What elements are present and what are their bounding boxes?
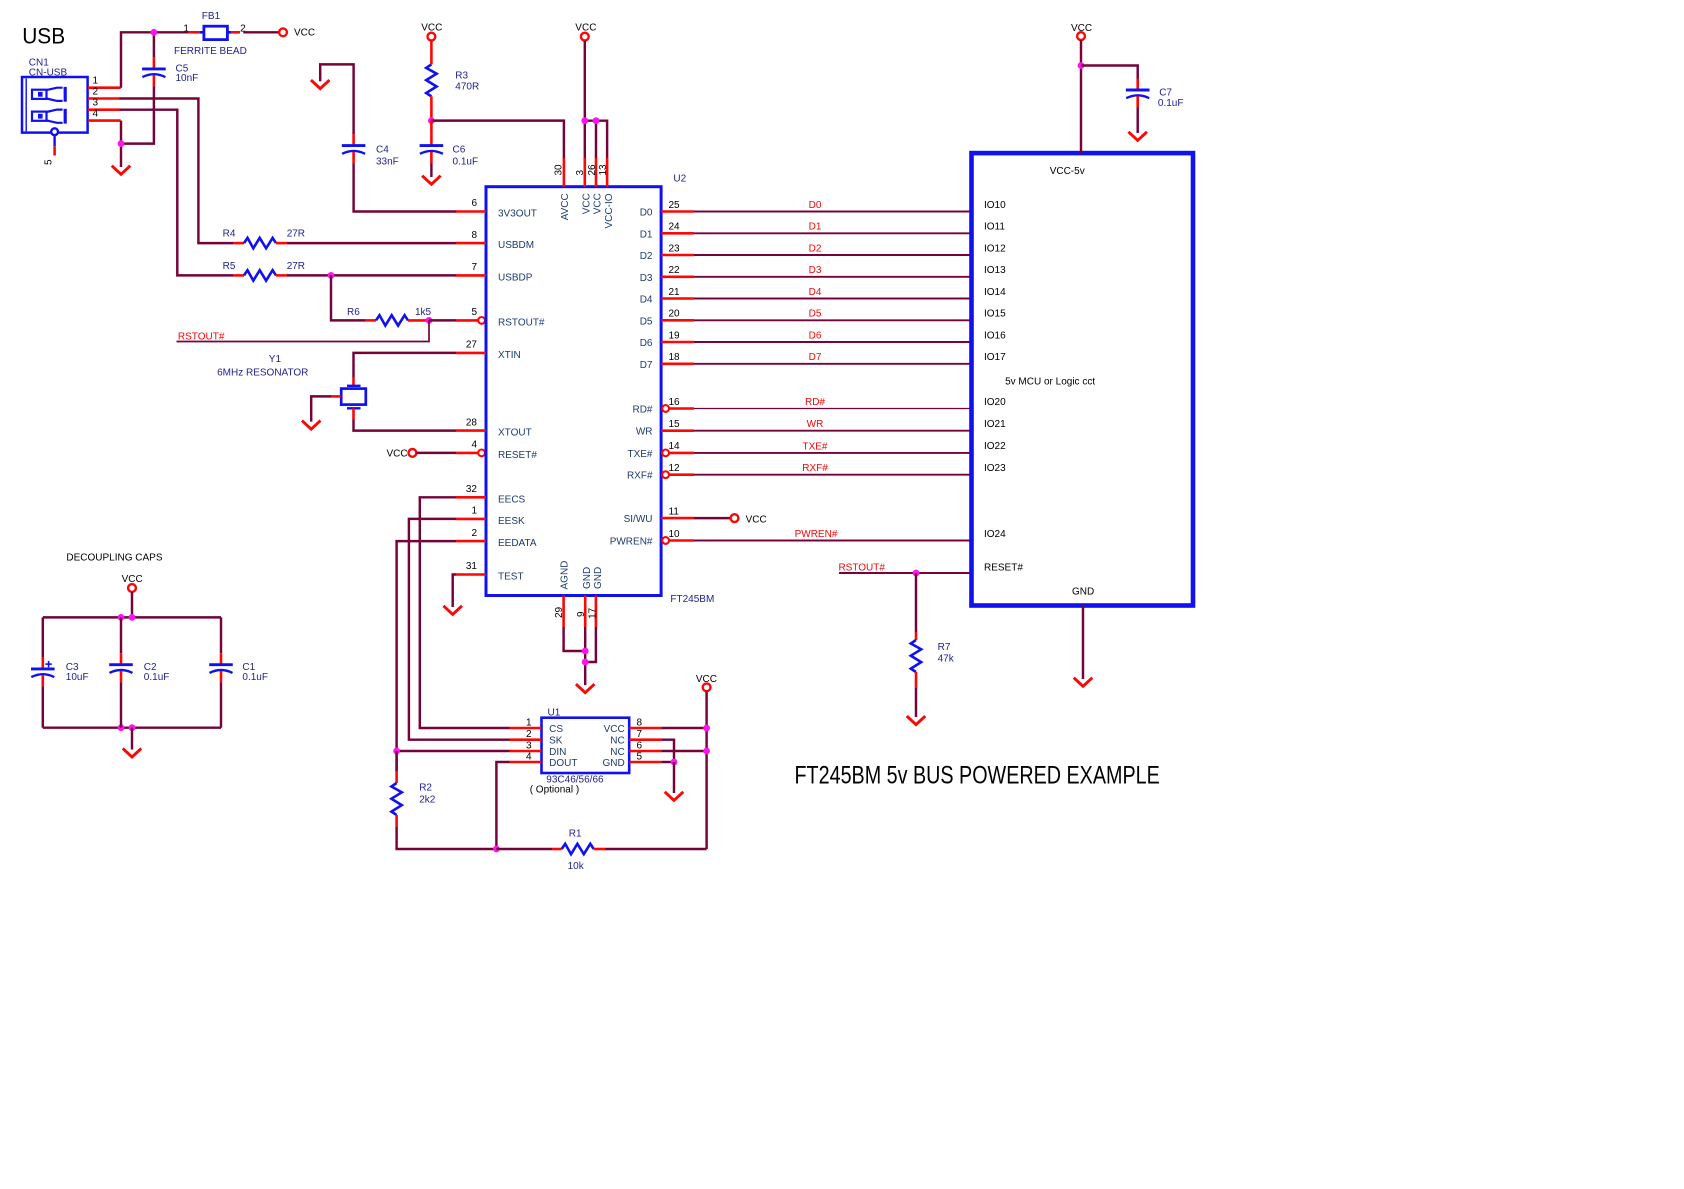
pin 26 stub of U2 top: [595, 158, 598, 187]
svg-text:0.1uF: 0.1uF: [242, 672, 268, 683]
VCC port above U2: [575, 22, 596, 40]
VCC port at U1: [696, 674, 717, 691]
svg-text:2: 2: [526, 729, 532, 740]
wire to C7: [1081, 66, 1138, 79]
svg-text:27: 27: [466, 340, 478, 351]
wire EESK to SK: [409, 519, 510, 740]
wire to R1: [496, 848, 552, 850]
pin 7 NC of U1: [629, 738, 661, 741]
svg-text:1: 1: [93, 76, 99, 87]
svg-text:17: 17: [587, 607, 598, 619]
svg-text:D5: D5: [640, 316, 653, 327]
svg-text:1: 1: [471, 506, 477, 517]
svg-text:CS: CS: [549, 724, 563, 735]
svg-text:6MHz RESONATOR: 6MHz RESONATOR: [217, 367, 308, 378]
pin 3 stub of U2 top: [583, 158, 586, 187]
svg-text:DIN: DIN: [549, 747, 566, 758]
wire VCC8 to VCC line: [661, 727, 706, 729]
inversion bubble PWREN#: [662, 537, 669, 544]
junction C2 bottom: [118, 724, 125, 731]
svg-text:D0: D0: [809, 200, 822, 211]
svg-text:VCC: VCC: [122, 574, 143, 585]
svg-text:DECOUPLING CAPS: DECOUPLING CAPS: [66, 553, 162, 564]
wire Y1 gnd pin: [311, 396, 331, 421]
wire VCC to RESET#: [416, 452, 456, 454]
ground at C6: [423, 177, 439, 185]
pin 29 stub of U2 bottom: [562, 596, 565, 628]
svg-text:5: 5: [471, 307, 477, 318]
wire XTIN to Y1: [354, 353, 457, 378]
svg-text:4: 4: [471, 440, 477, 451]
svg-text:GND: GND: [602, 758, 624, 769]
svg-text:4: 4: [93, 109, 99, 120]
svg-text:6: 6: [637, 740, 643, 751]
wire to R7: [915, 573, 917, 632]
pin 14 TXE# of U2: [669, 452, 694, 455]
wire R1 to VCC line: [606, 848, 707, 850]
pin 9 stub of U2 bottom: [584, 596, 587, 628]
wire TEST to ground: [453, 575, 456, 608]
svg-text:USBDM: USBDM: [498, 240, 534, 251]
wire VCC to rail: [131, 592, 133, 617]
wire C2 to rail: [120, 682, 122, 728]
svg-text:WR: WR: [807, 419, 824, 430]
wire net RXF#: [694, 474, 972, 476]
capacitor C3 electrolytic: [31, 657, 55, 686]
svg-text:TXE#: TXE#: [802, 441, 827, 452]
svg-text:R7: R7: [938, 642, 951, 653]
wire to C1: [220, 617, 222, 653]
wire EEDATA down: [397, 541, 456, 771]
pin 7 USBDP of U2: [456, 274, 486, 277]
pin 28 XTOUT of U2: [456, 429, 486, 432]
pin 5 GND of U1: [629, 761, 661, 764]
ground at C7: [1130, 133, 1146, 141]
resistor R2 zigzag: [391, 783, 401, 815]
svg-text:R6: R6: [347, 307, 360, 318]
wire to VCC pin3: [584, 121, 586, 158]
resistor R6 zigzag: [376, 315, 408, 325]
svg-text:EECS: EECS: [498, 494, 526, 505]
svg-text:D4: D4: [809, 287, 822, 298]
svg-text:25: 25: [669, 200, 681, 211]
svg-text:0.1uF: 0.1uF: [453, 157, 479, 168]
svg-text:IO15: IO15: [984, 309, 1006, 320]
svg-text:D6: D6: [640, 338, 653, 349]
svg-text:FB1: FB1: [202, 11, 221, 22]
svg-text:VCC: VCC: [746, 514, 767, 525]
pin 22 D3 of U2: [661, 275, 694, 278]
ground at U1: [666, 793, 682, 801]
pin 23 D2 of U2: [661, 254, 694, 257]
wire bottom rail: [43, 726, 221, 728]
svg-text:XTIN: XTIN: [498, 350, 521, 361]
junction FB1/C5: [151, 29, 158, 36]
svg-text:R5: R5: [223, 261, 236, 272]
pin 8 VCC of U1: [629, 727, 661, 730]
wire to DIN: [397, 750, 510, 752]
svg-text:23: 23: [669, 243, 681, 254]
wire Y1 to XTOUT: [354, 420, 457, 431]
svg-text:6: 6: [471, 198, 477, 209]
wire to C5 top: [153, 32, 155, 57]
svg-text:IO17: IO17: [984, 352, 1006, 363]
wire to VCC pin26: [595, 121, 597, 158]
svg-text:C4: C4: [376, 144, 389, 155]
svg-text:R3: R3: [455, 70, 468, 81]
capacitor C4: [342, 134, 366, 163]
capacitor C5: [142, 57, 166, 86]
junction VCC pin3: [581, 117, 588, 124]
wire R6 to RSTOUT# pin: [429, 319, 456, 321]
pin 4 DOUT of U1: [510, 761, 542, 764]
pin 31 TEST of U2: [456, 573, 486, 576]
svg-text:7: 7: [637, 729, 643, 740]
svg-text:26: 26: [587, 164, 598, 176]
svg-text:28: 28: [466, 417, 478, 428]
wire to ground U1: [673, 762, 675, 793]
wire AGND to GND: [564, 627, 586, 651]
svg-text:FT245BM: FT245BM: [670, 594, 714, 605]
ground at C4: [312, 81, 328, 89]
svg-text:IO13: IO13: [984, 265, 1006, 276]
svg-text:2: 2: [93, 87, 99, 98]
wire FB1 to VCC: [243, 31, 279, 33]
svg-text:8: 8: [471, 230, 477, 241]
svg-text:R4: R4: [223, 229, 236, 240]
svg-text:IO24: IO24: [984, 529, 1006, 540]
svg-text:VCC: VCC: [294, 28, 315, 39]
svg-text:D7: D7: [809, 352, 822, 363]
pin 1 of FB1: [189, 31, 200, 34]
svg-text:3: 3: [526, 740, 532, 751]
svg-text:VCC: VCC: [1071, 23, 1092, 34]
VCC port at FB1: [279, 28, 315, 39]
resistor R4: [233, 242, 244, 245]
wire to C2: [120, 617, 122, 653]
svg-text:RXF#: RXF#: [627, 471, 653, 482]
wire C7 to ground: [1136, 108, 1138, 134]
wire net D0: [694, 211, 972, 213]
junction R3/C6/AVCC: [428, 117, 435, 124]
svg-text:VCC-5v: VCC-5v: [1050, 166, 1085, 177]
capacitor C6: [420, 134, 444, 163]
svg-text:R1: R1: [569, 828, 582, 839]
svg-text:SK: SK: [549, 736, 563, 747]
IC U1 93C46 body: [542, 718, 630, 773]
svg-text:3: 3: [575, 170, 586, 176]
svg-text:EESK: EESK: [498, 516, 525, 527]
svg-text:SI/WU: SI/WU: [624, 514, 653, 525]
svg-text:C6: C6: [453, 144, 466, 155]
resistor R5 zigzag: [244, 270, 276, 280]
wire R4 to USBDM: [287, 242, 457, 244]
block 5v MCU or Logic cct: [972, 153, 1194, 605]
svg-text:D3: D3: [809, 265, 822, 276]
junction C2 top: [118, 614, 125, 621]
svg-text:D1: D1: [640, 229, 653, 240]
ferrite bead FB1: [200, 26, 231, 39]
svg-text:IO10: IO10: [984, 200, 1006, 211]
svg-text:GND: GND: [582, 567, 593, 589]
wire C3 to rail: [42, 686, 44, 727]
svg-text:RD#: RD#: [632, 405, 652, 416]
VCC port at RESET#: [386, 448, 416, 459]
inversion bubble pin5 RSTOUT#: [478, 317, 485, 324]
svg-text:D1: D1: [809, 222, 822, 233]
pin 5 of CN1: [53, 146, 56, 155]
pin 3 DIN of U1: [510, 750, 542, 753]
ground at TEST: [445, 607, 461, 615]
junction GND17/GND: [582, 659, 589, 666]
svg-text:11: 11: [669, 506, 680, 517]
svg-text:15: 15: [669, 419, 681, 430]
svg-text:7: 7: [471, 262, 477, 273]
svg-text:D5: D5: [809, 309, 822, 320]
pin 2 of CN1: [88, 97, 120, 100]
inversion bubble RXF#: [662, 471, 669, 478]
svg-text:( Optional ): ( Optional ): [530, 785, 579, 796]
junction R6/RSTOUT#: [426, 317, 433, 324]
svg-text:D3: D3: [640, 273, 653, 284]
svg-text:USB: USB: [22, 23, 65, 49]
ground at CN1: [113, 167, 129, 175]
wire net D1: [694, 232, 972, 234]
svg-text:16: 16: [669, 397, 681, 408]
pin 30 stub of U2 top: [563, 158, 566, 187]
svg-text:WR: WR: [636, 427, 653, 438]
wire GND9 to ground: [584, 627, 586, 685]
wire net RD#: [694, 408, 972, 410]
svg-text:GND: GND: [1072, 587, 1094, 598]
resistor R6: [365, 319, 376, 322]
pin 12 RXF# of U2: [669, 473, 694, 476]
svg-text:10: 10: [669, 529, 681, 540]
svg-text:24: 24: [669, 222, 681, 233]
wire net RSTOUT# stub: [177, 320, 430, 341]
junction VCC pin26: [593, 117, 600, 124]
pin 8 USBDM of U2: [456, 242, 486, 245]
svg-text:2k2: 2k2: [419, 795, 436, 806]
svg-text:D0: D0: [640, 208, 653, 219]
wire net RSTOUT# to RESET#: [839, 572, 972, 574]
svg-text:IO16: IO16: [984, 330, 1006, 341]
pin 2 SK of U1: [510, 738, 542, 741]
svg-text:33nF: 33nF: [376, 157, 399, 168]
wire R2 to R1: [397, 827, 497, 849]
svg-text:30: 30: [554, 164, 565, 176]
svg-text:22: 22: [669, 265, 681, 276]
svg-text:GND: GND: [593, 567, 604, 589]
svg-text:0.1uF: 0.1uF: [144, 672, 170, 683]
pin 2 EEDATA of U2: [456, 540, 486, 543]
capacitor C7: [1126, 79, 1150, 108]
svg-text:CN-USB: CN-USB: [29, 67, 68, 78]
svg-text:27R: 27R: [287, 229, 305, 240]
svg-text:3V3OUT: 3V3OUT: [498, 209, 537, 220]
inversion bubble RD#: [662, 405, 669, 412]
wire C4 to 3V3OUT: [354, 163, 457, 211]
svg-text:RESET#: RESET#: [984, 562, 1023, 573]
wire C1 to rail: [220, 682, 222, 728]
svg-text:21: 21: [669, 287, 681, 298]
wire VCC to block: [1080, 40, 1082, 153]
pin 15 WR of U2: [661, 429, 694, 432]
junction USBDP/R6: [328, 272, 335, 279]
VCC port top right: [1071, 23, 1092, 40]
svg-text:D7: D7: [640, 360, 653, 371]
pin 11 SI/WU of U2: [661, 517, 694, 520]
pin 21 D4 of U2: [661, 297, 694, 300]
pin 13 stub of U2 top: [606, 158, 609, 187]
wire DOUT down: [496, 762, 509, 849]
wire GND17 to GND: [585, 627, 596, 662]
pin 27 XTIN of U2: [456, 352, 486, 355]
svg-text:13: 13: [598, 164, 609, 176]
wire net WR: [694, 430, 972, 432]
pin 16 RD# of U2: [669, 407, 694, 410]
wire net D4: [694, 298, 972, 300]
svg-text:3: 3: [93, 98, 99, 109]
pin 20 D5 of U2: [661, 319, 694, 322]
wire VCC down: [584, 41, 586, 121]
svg-text:5v MCU or Logic cct: 5v MCU or Logic cct: [1005, 376, 1095, 387]
svg-text:47k: 47k: [938, 654, 955, 665]
resistor R1 zigzag: [562, 844, 594, 854]
svg-text:19: 19: [669, 330, 681, 341]
pin 4 stub of U2: [456, 452, 478, 455]
svg-text:1: 1: [526, 718, 532, 729]
ground at U2 GND: [577, 685, 593, 693]
svg-text:RD#: RD#: [805, 397, 825, 408]
svg-text:D4: D4: [640, 295, 653, 306]
resistor R7 zigzag: [911, 640, 921, 672]
junction VCC8: [703, 725, 710, 732]
pin 1 EESK of U2: [456, 518, 486, 521]
wire CN1 pin4 to ground: [120, 121, 122, 167]
junction RSTOUT#/R7: [913, 570, 920, 577]
pin 1 CS of U1: [510, 727, 542, 730]
wire net PWREN#: [694, 540, 972, 542]
svg-text:20: 20: [669, 309, 681, 320]
wire block GND to ground: [1082, 606, 1084, 680]
ground at block GND: [1075, 679, 1091, 687]
svg-text:IO21: IO21: [984, 419, 1006, 430]
IC U2 FT245BM body: [486, 187, 661, 596]
svg-text:IO12: IO12: [984, 243, 1006, 254]
svg-text:DOUT: DOUT: [549, 758, 577, 769]
svg-text:USBDP: USBDP: [498, 272, 533, 283]
svg-text:0.1uF: 0.1uF: [1158, 98, 1184, 109]
svg-text:18: 18: [669, 352, 681, 363]
pin 4 of CN1: [88, 119, 121, 122]
wire junction to R6: [331, 275, 365, 320]
svg-text:32: 32: [466, 484, 478, 495]
wire VCC rail to VCC-IO: [585, 121, 607, 158]
svg-text:PWREN#: PWREN#: [610, 537, 653, 548]
pin 32 EECS of U2: [456, 496, 486, 499]
wire R7 to ground: [915, 688, 917, 717]
pin 18 D7 of U2: [661, 362, 694, 365]
pin 1 of CN1: [88, 86, 121, 89]
junction VCC rail: [129, 614, 136, 621]
svg-text:2: 2: [471, 528, 477, 539]
svg-text:PWREN#: PWREN#: [795, 529, 838, 540]
junction DOUT/R1: [493, 846, 500, 853]
wire C5 bottom to gnd node: [121, 86, 154, 143]
inversion bubble TXE#: [662, 450, 669, 457]
wire NC6 to VCC line: [661, 750, 706, 752]
svg-text:RSTOUT#: RSTOUT#: [498, 317, 545, 328]
svg-text:29: 29: [554, 606, 565, 618]
svg-text:5: 5: [637, 752, 643, 763]
svg-text:U2: U2: [673, 174, 686, 185]
svg-text:4: 4: [526, 752, 532, 763]
svg-text:FERRITE BEAD: FERRITE BEAD: [174, 46, 247, 57]
svg-text:D2: D2: [809, 243, 822, 254]
junction VCC/C7: [1078, 62, 1085, 69]
wire net D6: [694, 341, 972, 343]
svg-text:1k5: 1k5: [415, 307, 432, 318]
resonator Y1: [332, 378, 366, 420]
svg-text:IO14: IO14: [984, 287, 1006, 298]
svg-text:VCC-IO: VCC-IO: [604, 193, 615, 228]
junction GND5/NC7: [671, 759, 678, 766]
junction AGND/GND: [582, 648, 589, 655]
svg-text:U1: U1: [548, 707, 561, 718]
wire VCC line down: [705, 691, 707, 849]
pin 5 stub of U2: [456, 319, 478, 322]
junction EEDATA/DIN/R2: [393, 748, 400, 755]
resistor R3 zigzag: [426, 64, 436, 96]
svg-text:8: 8: [637, 718, 643, 729]
svg-text:14: 14: [669, 441, 681, 452]
junction NC6: [703, 748, 710, 755]
wire CN1 pin3 to R5: [120, 110, 234, 276]
pin 19 D6 of U2: [661, 341, 694, 344]
wire net D5: [694, 319, 972, 321]
resistor R3: [430, 41, 433, 65]
VCC port above R3: [421, 22, 442, 40]
wire to C3: [42, 617, 44, 657]
wire net D2: [694, 254, 972, 256]
svg-text:27R: 27R: [287, 261, 305, 272]
wire top rail: [43, 616, 221, 618]
junction CN1 pin4/C5: [118, 140, 125, 147]
svg-text:9: 9: [576, 611, 587, 617]
capacitor C1: [209, 653, 233, 682]
wire CN1 pin1 to FB1: [121, 32, 189, 87]
svg-text:470R: 470R: [455, 82, 479, 93]
svg-text:VCC: VCC: [604, 724, 625, 735]
svg-text:XTOUT: XTOUT: [498, 428, 532, 439]
svg-text:VCC: VCC: [386, 448, 407, 459]
svg-text:AVCC: AVCC: [560, 193, 571, 220]
wire SI/WU to VCC: [694, 517, 731, 519]
svg-text:31: 31: [466, 561, 478, 572]
svg-text:RESET#: RESET#: [498, 450, 537, 461]
pin 6 NC of U1: [629, 750, 661, 753]
pin 17 stub of U2 bottom: [595, 596, 598, 628]
wire EECS to CS: [420, 497, 510, 728]
svg-text:IO23: IO23: [984, 463, 1006, 474]
pin 3 of CN1: [88, 108, 120, 111]
stub to C6: [430, 121, 433, 135]
svg-text:VCC: VCC: [696, 674, 717, 685]
pin 10 PWREN# of U2: [669, 539, 694, 542]
wire R5 to USBDP: [287, 274, 457, 276]
pin 2 of FB1: [231, 31, 240, 34]
